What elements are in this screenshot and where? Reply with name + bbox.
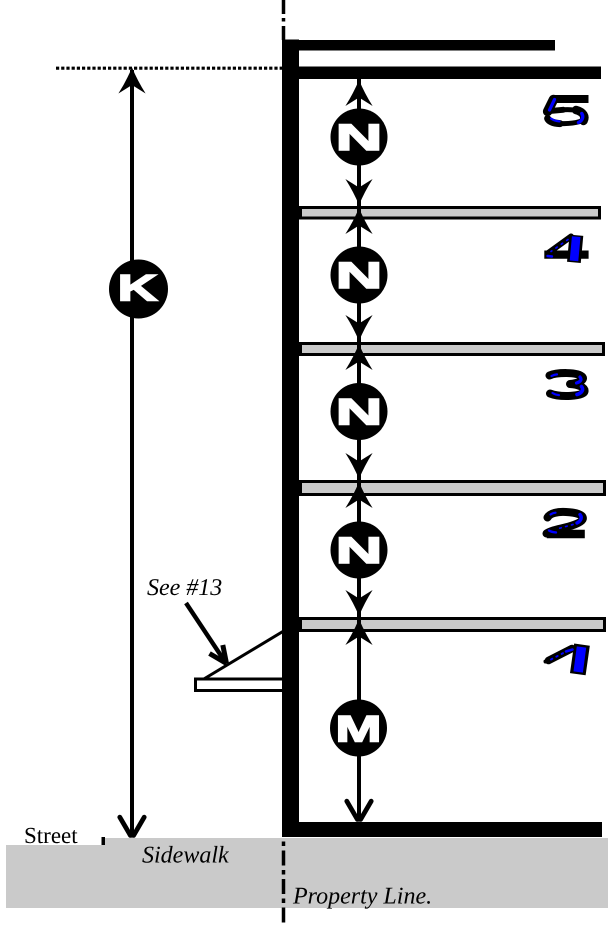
svg-text:M: M: [335, 709, 381, 750]
svg-text:See #13: See #13: [147, 575, 222, 601]
svg-text:N: N: [336, 255, 383, 296]
svg-text:K: K: [117, 268, 158, 309]
svg-text:N: N: [336, 530, 383, 571]
svg-text:N: N: [336, 117, 383, 158]
svg-text:Property Line.: Property Line.: [292, 884, 432, 910]
svg-text:Street: Street: [24, 823, 78, 848]
svg-text:N: N: [336, 392, 383, 433]
svg-text:Sidewalk: Sidewalk: [142, 843, 229, 869]
